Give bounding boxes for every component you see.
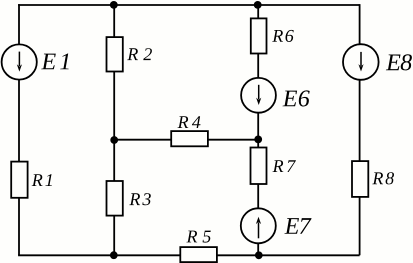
resistor R5 <box>180 247 217 262</box>
node junction top-left <box>110 1 118 9</box>
arrow of source E1 (down) <box>17 52 22 72</box>
node junction bottom-right <box>255 251 263 259</box>
label R2 <box>127 48 152 60</box>
label R7 <box>273 160 296 172</box>
voltage source E1 <box>2 44 37 79</box>
node junction middle-right <box>254 136 262 144</box>
node junction bottom-left <box>110 251 118 259</box>
arrow of source E8 (down) <box>358 52 363 72</box>
label E8 <box>386 54 412 70</box>
resistor R3 <box>107 181 123 216</box>
voltage source E8 <box>343 44 379 80</box>
label R6 <box>272 30 294 42</box>
arrow of source E6 (down) <box>256 85 261 105</box>
voltage source E7 <box>241 208 276 243</box>
label R5 <box>186 231 210 243</box>
wire left branch <box>18 4 20 255</box>
wire middle horizontal R4 <box>114 139 258 141</box>
resistor R2 <box>107 37 123 71</box>
wire top <box>18 4 360 6</box>
label R3 <box>129 193 151 205</box>
node junction top-right <box>254 1 262 9</box>
resistor R4 <box>171 131 208 146</box>
wire branch 2 vertical <box>113 5 115 255</box>
resistor R7 <box>251 148 267 185</box>
label R1 <box>32 174 52 186</box>
resistor R8 <box>352 161 368 197</box>
wire bottom <box>18 254 360 256</box>
label R4 <box>178 116 201 128</box>
wire branch 3 vertical <box>257 5 259 255</box>
label E1 <box>41 54 68 70</box>
wire right branch <box>359 4 361 255</box>
label E7 <box>284 218 311 234</box>
arrow of source E7 (up) <box>256 217 261 239</box>
voltage source E6 <box>241 78 276 113</box>
resistor R1 <box>11 162 27 198</box>
resistor R6 <box>251 18 267 53</box>
label R8 <box>372 172 394 184</box>
label E6 <box>283 90 310 106</box>
node junction middle-left <box>110 136 118 144</box>
